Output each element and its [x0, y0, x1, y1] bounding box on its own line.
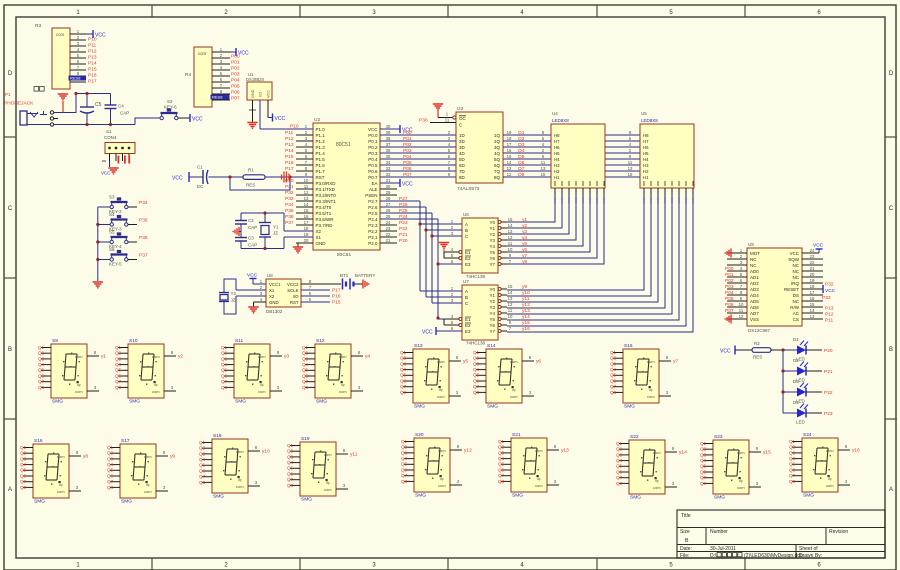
svg-text:Size: Size	[680, 529, 690, 535]
svg-text:JZ: JZ	[231, 298, 236, 303]
svg-text:dp: dp	[146, 483, 150, 487]
svg-text:S10: S10	[129, 338, 138, 344]
svg-text:dp: dp	[341, 383, 345, 387]
svg-text:B: B	[8, 347, 12, 353]
svg-text:y1: y1	[522, 217, 527, 223]
svg-text:S24: S24	[803, 432, 812, 438]
svg-text:C1: C1	[197, 165, 203, 170]
svg-text:D4: D4	[793, 400, 799, 405]
svg-text:Q2: Q2	[221, 351, 228, 356]
svg-text:com: com	[75, 389, 83, 394]
svg-text:S15: S15	[624, 343, 633, 349]
svg-text:CON4: CON4	[104, 135, 117, 140]
svg-text:D2: D2	[793, 358, 799, 363]
svg-text:15: 15	[810, 302, 815, 307]
svg-text:P37: P37	[139, 253, 148, 259]
svg-text:DS18B20: DS18B20	[246, 77, 265, 82]
svg-text:SMG: SMG	[213, 494, 224, 500]
svg-text:H5: H5	[554, 151, 560, 156]
svg-text:S18: S18	[213, 433, 222, 439]
svg-text:P22: P22	[399, 226, 408, 232]
svg-text:Y5: Y5	[489, 250, 495, 255]
svg-text:dp: dp	[828, 477, 832, 481]
svg-text:GND: GND	[316, 241, 327, 246]
svg-text:y16: y16	[522, 326, 530, 332]
svg-text:13: 13	[508, 296, 513, 301]
svg-text:Q4: Q4	[38, 362, 45, 367]
svg-text:y15: y15	[763, 450, 771, 456]
svg-text:E1: E1	[465, 250, 471, 255]
svg-text:AD1: AD1	[750, 275, 759, 280]
svg-text:KEY-5: KEY-5	[109, 262, 122, 267]
svg-text:y3: y3	[522, 229, 527, 235]
svg-text:S5: S5	[109, 230, 115, 235]
svg-text:y12: y12	[522, 302, 530, 308]
svg-text:Q8: Q8	[400, 390, 407, 395]
svg-text:SMG: SMG	[129, 399, 140, 405]
svg-text:P0.6: P0.6	[368, 169, 378, 174]
svg-text:13: 13	[507, 166, 512, 171]
svg-text:P15: P15	[88, 67, 97, 73]
svg-text:A: A	[465, 289, 468, 294]
svg-text:P12: P12	[285, 136, 294, 142]
svg-text:Q6: Q6	[115, 373, 122, 378]
svg-text:P33: P33	[822, 295, 831, 301]
svg-text:5Q: 5Q	[494, 157, 501, 162]
svg-text:Q6: Q6	[20, 473, 27, 478]
svg-text:Q3: Q3	[400, 361, 407, 366]
svg-text:Y0: Y0	[489, 287, 495, 292]
svg-text:Q3: Q3	[473, 361, 480, 366]
svg-text:VCC: VCC	[101, 171, 111, 176]
svg-text:P06: P06	[725, 302, 734, 308]
svg-text:VCC: VCC	[238, 51, 249, 57]
svg-text:P3.7/RD: P3.7/RD	[316, 223, 334, 228]
svg-text:20: 20	[304, 238, 309, 243]
svg-text:B: B	[889, 347, 893, 353]
svg-text:22: 22	[810, 260, 815, 265]
svg-text:Q7: Q7	[401, 473, 408, 478]
svg-text:y12: y12	[464, 448, 472, 454]
svg-text:U3: U3	[457, 106, 463, 112]
svg-text:Q3: Q3	[302, 356, 309, 361]
svg-text:DS12C887: DS12C887	[748, 328, 771, 333]
svg-text:R4: R4	[185, 72, 191, 78]
svg-text:VCC: VCC	[247, 273, 258, 279]
svg-text:NC: NC	[793, 275, 800, 280]
svg-text:AD5: AD5	[750, 299, 759, 304]
svg-text:P20: P20	[824, 348, 833, 354]
svg-text:P2.6: P2.6	[368, 205, 378, 210]
svg-text:Q4: Q4	[616, 458, 623, 463]
svg-text:RES8: RES8	[70, 76, 81, 81]
svg-text:Y4: Y4	[489, 311, 495, 316]
svg-text:Q7: Q7	[610, 384, 617, 389]
svg-text:AD3: AD3	[750, 287, 759, 292]
svg-text:D: D	[8, 71, 13, 77]
svg-text:6D: 6D	[459, 163, 466, 168]
svg-text:14: 14	[508, 223, 513, 228]
svg-text:8Q: 8Q	[494, 175, 501, 180]
svg-text:P06: P06	[231, 90, 240, 96]
svg-text:R3: R3	[35, 23, 41, 29]
svg-text:P0.0: P0.0	[368, 133, 378, 138]
svg-text:P02: P02	[403, 142, 412, 148]
svg-text:Q2: Q2	[287, 449, 294, 454]
svg-text:OC: OC	[459, 116, 467, 121]
svg-text:36: 36	[386, 148, 391, 153]
svg-text:RESET: RESET	[784, 287, 799, 292]
svg-text:10: 10	[508, 247, 513, 252]
svg-text:P0.7: P0.7	[368, 175, 378, 180]
svg-text:Q8: Q8	[401, 479, 408, 484]
svg-text:GND: GND	[269, 300, 279, 305]
svg-text:P36: P36	[285, 214, 294, 220]
svg-text:Q4: Q4	[400, 367, 407, 372]
svg-text:Q3: Q3	[610, 361, 617, 366]
svg-text:30-Jul-2011: 30-Jul-2011	[710, 546, 736, 552]
svg-text:P05: P05	[231, 84, 240, 90]
svg-text:P07: P07	[725, 308, 734, 314]
svg-text:10: 10	[739, 302, 744, 307]
svg-text:MOT: MOT	[750, 251, 760, 256]
svg-text:y9: y9	[170, 454, 175, 460]
svg-text:KEY-6: KEY-6	[164, 105, 177, 110]
svg-text:P37: P37	[285, 220, 294, 226]
svg-text:y11: y11	[350, 452, 358, 458]
svg-text:S2: S2	[167, 99, 173, 104]
svg-text:X1: X1	[316, 235, 322, 240]
svg-text:H6: H6	[554, 145, 560, 150]
svg-text:P13: P13	[88, 55, 97, 61]
svg-text:17: 17	[304, 220, 309, 225]
svg-text:H8: H8	[643, 133, 649, 138]
svg-text:E2: E2	[465, 323, 471, 328]
svg-text:P23: P23	[399, 220, 408, 226]
svg-text:38: 38	[386, 136, 391, 141]
svg-text:Y3: Y3	[489, 305, 495, 310]
svg-text:Q2: Q2	[700, 447, 707, 452]
svg-text:Q4: Q4	[473, 367, 480, 372]
svg-text:U9: U9	[748, 242, 754, 247]
svg-text:11: 11	[739, 308, 744, 313]
svg-text:S17: S17	[121, 438, 130, 444]
svg-text:ALE: ALE	[369, 187, 378, 192]
svg-text:P0.5: P0.5	[368, 163, 378, 168]
svg-text:dp: dp	[537, 477, 541, 481]
svg-text:H3: H3	[643, 163, 649, 168]
svg-text:16: 16	[304, 214, 309, 219]
svg-text:P3.5/T1: P3.5/T1	[316, 211, 332, 216]
svg-text:P20: P20	[399, 238, 408, 244]
svg-text:12: 12	[508, 302, 513, 307]
svg-text:Revision: Revision	[829, 529, 848, 535]
svg-text:S19: S19	[301, 436, 310, 442]
svg-text:GND: GND	[251, 89, 255, 98]
svg-text:16: 16	[810, 296, 815, 301]
svg-text:H1: H1	[643, 175, 649, 180]
svg-text:Q1: Q1	[616, 441, 623, 446]
svg-text:26: 26	[386, 208, 391, 213]
svg-text:PSEN: PSEN	[365, 193, 377, 198]
svg-text:P03: P03	[403, 148, 412, 154]
svg-text:VCC: VCC	[368, 127, 378, 132]
svg-text:LED: LED	[796, 420, 806, 425]
svg-text:VCC: VCC	[275, 116, 286, 122]
svg-text:VCC: VCC	[789, 251, 799, 256]
svg-text:80C51: 80C51	[336, 142, 351, 148]
svg-text:VSS: VSS	[750, 317, 759, 322]
svg-text:19: 19	[304, 232, 309, 237]
svg-text:Y3: Y3	[489, 238, 495, 243]
svg-text:P01: P01	[725, 272, 734, 278]
svg-text:18: 18	[304, 226, 309, 231]
svg-text:Q6: Q6	[287, 471, 294, 476]
svg-text:AC: AC	[793, 311, 800, 316]
svg-text:Q8: Q8	[199, 480, 206, 485]
svg-text:y8: y8	[83, 454, 88, 460]
svg-text:y4: y4	[365, 354, 370, 360]
svg-text:22: 22	[386, 232, 391, 237]
svg-text:Q3: Q3	[287, 454, 294, 459]
svg-text:23: 23	[386, 226, 391, 231]
svg-text:Q1: Q1	[610, 350, 617, 355]
svg-text:Q8: Q8	[473, 390, 480, 395]
svg-text:Number: Number	[710, 529, 728, 535]
svg-text:P02: P02	[725, 278, 734, 284]
svg-text:P04: P04	[725, 290, 734, 296]
svg-text:C: C	[889, 206, 894, 212]
svg-text:16: 16	[507, 148, 512, 153]
svg-text:P10: P10	[290, 124, 299, 130]
svg-text:JZ: JZ	[273, 231, 278, 236]
svg-text:Q2: Q2	[789, 445, 796, 450]
svg-text:A: A	[8, 487, 12, 493]
svg-text:P1.6: P1.6	[316, 163, 326, 168]
svg-text:P01: P01	[231, 60, 240, 66]
svg-text:Q5: Q5	[700, 464, 707, 469]
svg-text:com: com	[653, 485, 661, 490]
svg-text:Q2: Q2	[302, 351, 309, 356]
svg-text:14: 14	[304, 202, 309, 207]
svg-text:Q8: Q8	[115, 385, 122, 390]
svg-text:P22: P22	[824, 390, 833, 396]
svg-text:P14: P14	[285, 148, 294, 154]
svg-text:Q7: Q7	[20, 479, 27, 484]
svg-text:y8: y8	[522, 259, 527, 265]
svg-text:P1.3: P1.3	[316, 145, 326, 150]
svg-text:y5: y5	[522, 241, 527, 247]
svg-text:SMG: SMG	[34, 499, 45, 505]
svg-text:Q1: Q1	[199, 440, 206, 445]
svg-text:EC: EC	[197, 184, 204, 189]
svg-text:y6: y6	[536, 359, 541, 365]
svg-text:I/O: I/O	[293, 294, 299, 299]
svg-text:A: A	[889, 487, 893, 493]
svg-text:Q8: Q8	[700, 481, 707, 486]
svg-text:Q7: Q7	[616, 475, 623, 480]
svg-text:Q3: Q3	[199, 451, 206, 456]
svg-text:P11: P11	[825, 318, 834, 324]
svg-text:P3.2/INT0: P3.2/INT0	[316, 193, 337, 198]
svg-text:C5: C5	[95, 102, 102, 108]
svg-text:Q8: Q8	[38, 385, 45, 390]
svg-text:P1.4: P1.4	[316, 151, 326, 156]
svg-text:Q3: Q3	[616, 452, 623, 457]
svg-text:y13: y13	[561, 448, 569, 454]
svg-text:Q4: Q4	[700, 458, 707, 463]
svg-text:Q2: Q2	[473, 356, 480, 361]
svg-text:Y4: Y4	[489, 244, 495, 249]
svg-text:RES: RES	[246, 183, 255, 188]
svg-text:B: B	[465, 295, 468, 300]
svg-text:12: 12	[304, 190, 309, 195]
svg-text:33: 33	[386, 166, 391, 171]
svg-text:Q6: Q6	[498, 467, 505, 472]
svg-text:P2.5: P2.5	[368, 211, 378, 216]
svg-text:P06: P06	[403, 166, 412, 172]
svg-text:P17: P17	[332, 288, 341, 294]
svg-text:P21: P21	[399, 232, 408, 238]
svg-text:H7: H7	[554, 139, 560, 144]
svg-text:30: 30	[386, 184, 391, 189]
svg-text:P11: P11	[285, 130, 294, 136]
svg-text:P32: P32	[825, 282, 834, 288]
svg-text:14: 14	[507, 160, 512, 165]
svg-text:P0.4: P0.4	[368, 157, 378, 162]
svg-text:com: com	[737, 485, 745, 490]
svg-text:Q7: Q7	[199, 474, 206, 479]
svg-text:13: 13	[810, 314, 815, 319]
svg-text:Q3: Q3	[518, 142, 525, 148]
svg-text:P25: P25	[399, 208, 408, 214]
svg-text:H6: H6	[643, 145, 649, 150]
svg-text:Q4: Q4	[610, 367, 617, 372]
svg-text:Q6: Q6	[199, 468, 206, 473]
svg-text:U4: U4	[552, 111, 558, 116]
svg-text:y10: y10	[262, 449, 270, 455]
svg-text:Q4: Q4	[518, 148, 525, 154]
svg-text:P12: P12	[88, 49, 97, 55]
svg-text:Q8: Q8	[498, 479, 505, 484]
svg-text:P12: P12	[825, 312, 834, 318]
svg-text:U7: U7	[463, 279, 469, 284]
svg-text:X1: X1	[269, 288, 275, 293]
svg-text:y15: y15	[522, 320, 530, 326]
svg-text:y2: y2	[178, 354, 183, 360]
svg-text:Q1: Q1	[498, 439, 505, 444]
svg-text:com: com	[56, 32, 65, 37]
svg-text:P0.3: P0.3	[368, 151, 378, 156]
svg-text:P0.1: P0.1	[368, 139, 378, 144]
svg-text:11: 11	[541, 160, 546, 165]
svg-text:P03: P03	[231, 72, 240, 78]
svg-text:15: 15	[541, 172, 546, 177]
svg-text:P3.0/RXD: P3.0/RXD	[316, 181, 337, 186]
svg-text:Drawn By:: Drawn By:	[799, 553, 822, 559]
svg-text:P11: P11	[88, 43, 97, 49]
svg-text:Q1: Q1	[700, 441, 707, 446]
svg-text:H2: H2	[554, 169, 560, 174]
svg-text:Q5: Q5	[610, 373, 617, 378]
svg-text:P1.2: P1.2	[316, 139, 326, 144]
svg-text:y4: y4	[522, 235, 527, 241]
svg-text:(2)\LED630\MyDesign.ddb: (2)\LED630\MyDesign.ddb	[744, 553, 803, 559]
svg-text:11: 11	[508, 241, 513, 246]
svg-text:Sheet of: Sheet of	[799, 546, 818, 552]
svg-text:VCC: VCC	[267, 90, 271, 98]
svg-text:Y2: Y2	[231, 291, 237, 296]
svg-text:E3: E3	[465, 262, 471, 267]
svg-text:21: 21	[386, 238, 391, 243]
svg-text:6Q: 6Q	[494, 163, 501, 168]
svg-text:1Q: 1Q	[494, 133, 501, 138]
svg-text:23: 23	[810, 254, 815, 259]
svg-text:3Q: 3Q	[494, 145, 501, 150]
svg-text:Q6: Q6	[616, 469, 623, 474]
svg-text:AD0: AD0	[750, 269, 759, 274]
svg-text:D:\: D:\	[710, 553, 717, 559]
svg-text:28: 28	[386, 196, 391, 201]
svg-text:y3: y3	[284, 354, 289, 360]
svg-text:AD6: AD6	[750, 305, 759, 310]
svg-text:Q3: Q3	[498, 450, 505, 455]
svg-text:Q5: Q5	[401, 462, 408, 467]
svg-text:Q6: Q6	[400, 378, 407, 383]
svg-text:11: 11	[445, 117, 450, 122]
svg-text:20: 20	[810, 272, 815, 277]
svg-text:RST: RST	[290, 300, 299, 305]
svg-text:y9: y9	[522, 284, 527, 290]
svg-text:Y2: Y2	[489, 299, 495, 304]
svg-text:P15: P15	[332, 300, 341, 306]
svg-text:H1: H1	[554, 175, 560, 180]
svg-text:P16: P16	[285, 160, 294, 166]
svg-text:Q5: Q5	[473, 373, 480, 378]
svg-text:VCC: VCC	[402, 182, 413, 188]
svg-text:24: 24	[810, 248, 815, 253]
svg-text:P00: P00	[403, 130, 412, 136]
svg-text:Q1: Q1	[287, 443, 294, 448]
svg-text:Y7: Y7	[489, 329, 495, 334]
svg-text:Q5: Q5	[221, 368, 228, 373]
svg-text:SCLK: SCLK	[287, 288, 298, 293]
svg-text:P15: P15	[285, 154, 294, 160]
svg-text:P33: P33	[285, 196, 294, 202]
svg-text:Q6: Q6	[610, 378, 617, 383]
svg-text:Q6: Q6	[302, 373, 309, 378]
svg-text:Q5: Q5	[302, 368, 309, 373]
svg-text:P3.3/INT1: P3.3/INT1	[316, 199, 337, 204]
svg-text:Q2: Q2	[498, 445, 505, 450]
svg-text:15: 15	[508, 217, 513, 222]
svg-text:Q6: Q6	[221, 373, 228, 378]
svg-text:VCC2: VCC2	[287, 282, 299, 287]
svg-text:dp: dp	[739, 479, 743, 483]
svg-text:Q1: Q1	[518, 130, 525, 136]
svg-text:3D: 3D	[459, 145, 466, 150]
svg-text:Q2: Q2	[401, 445, 408, 450]
svg-text:15: 15	[628, 172, 633, 177]
svg-text:P17: P17	[88, 79, 97, 85]
svg-text:Y1: Y1	[489, 293, 495, 298]
svg-text:10: 10	[508, 314, 513, 319]
svg-text:15: 15	[508, 284, 513, 289]
svg-text:13: 13	[628, 166, 633, 171]
svg-text:Q2: Q2	[107, 451, 114, 456]
svg-text:P2.3: P2.3	[368, 223, 378, 228]
svg-text:P13: P13	[285, 142, 294, 148]
